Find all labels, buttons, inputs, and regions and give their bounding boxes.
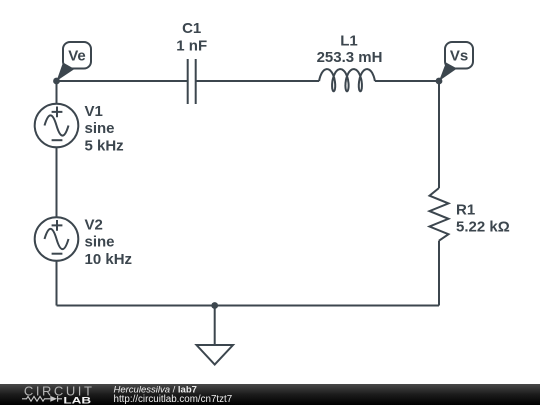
svg-text:L1: L1: [340, 32, 358, 49]
node label box Vs: [445, 42, 473, 69]
node dot ground: [211, 302, 218, 309]
svg-text:253.3 mH: 253.3 mH: [317, 49, 383, 66]
svg-text:sine: sine: [85, 120, 115, 137]
svg-text:sine: sine: [85, 234, 115, 251]
svg-text:V1: V1: [85, 103, 103, 120]
voltage source V2: [35, 217, 79, 261]
wire inductor to Vs node: [375, 80, 439, 82]
svg-text:V2: V2: [85, 216, 103, 233]
wire V1 to V2: [56, 148, 58, 218]
svg-text:http://circuitlab.com/cn7tzt7: http://circuitlab.com/cn7tzt7: [114, 394, 233, 405]
wire bottom rail: [57, 305, 440, 307]
svg-text:1 nF: 1 nF: [176, 37, 207, 54]
node dot Vs: [436, 78, 443, 85]
wire capacitor to inductor: [196, 80, 319, 82]
svg-text:LAB: LAB: [63, 396, 91, 405]
ground: [197, 306, 234, 365]
label tail Vs: [439, 63, 457, 82]
svg-text:R1: R1: [456, 201, 475, 218]
svg-text:5.22 kΩ: 5.22 kΩ: [456, 218, 510, 235]
svg-text:5 kHz: 5 kHz: [85, 137, 124, 154]
logo resistor-diode line: [22, 396, 62, 402]
svg-text:Vs: Vs: [450, 48, 468, 65]
svg-text:Ve: Ve: [68, 48, 86, 65]
node dot Ve: [53, 78, 60, 85]
wire V2 to bottom rail: [56, 261, 58, 306]
wire Vs node to R1: [438, 81, 440, 188]
logo diode triangle: [50, 396, 57, 402]
label tail Ve: [57, 63, 75, 82]
resistor R1: [430, 188, 449, 241]
inductor L1: [319, 69, 375, 91]
svg-text:C1: C1: [182, 20, 201, 37]
wire top-left to capacitor: [57, 80, 188, 82]
wire R1 to bottom rail: [438, 241, 440, 306]
voltage source V1: [35, 104, 79, 148]
capacitor C1: [188, 59, 196, 104]
node label box Ve: [63, 42, 91, 69]
svg-text:10 kHz: 10 kHz: [85, 251, 133, 268]
wire left rail node to V1: [56, 81, 58, 104]
